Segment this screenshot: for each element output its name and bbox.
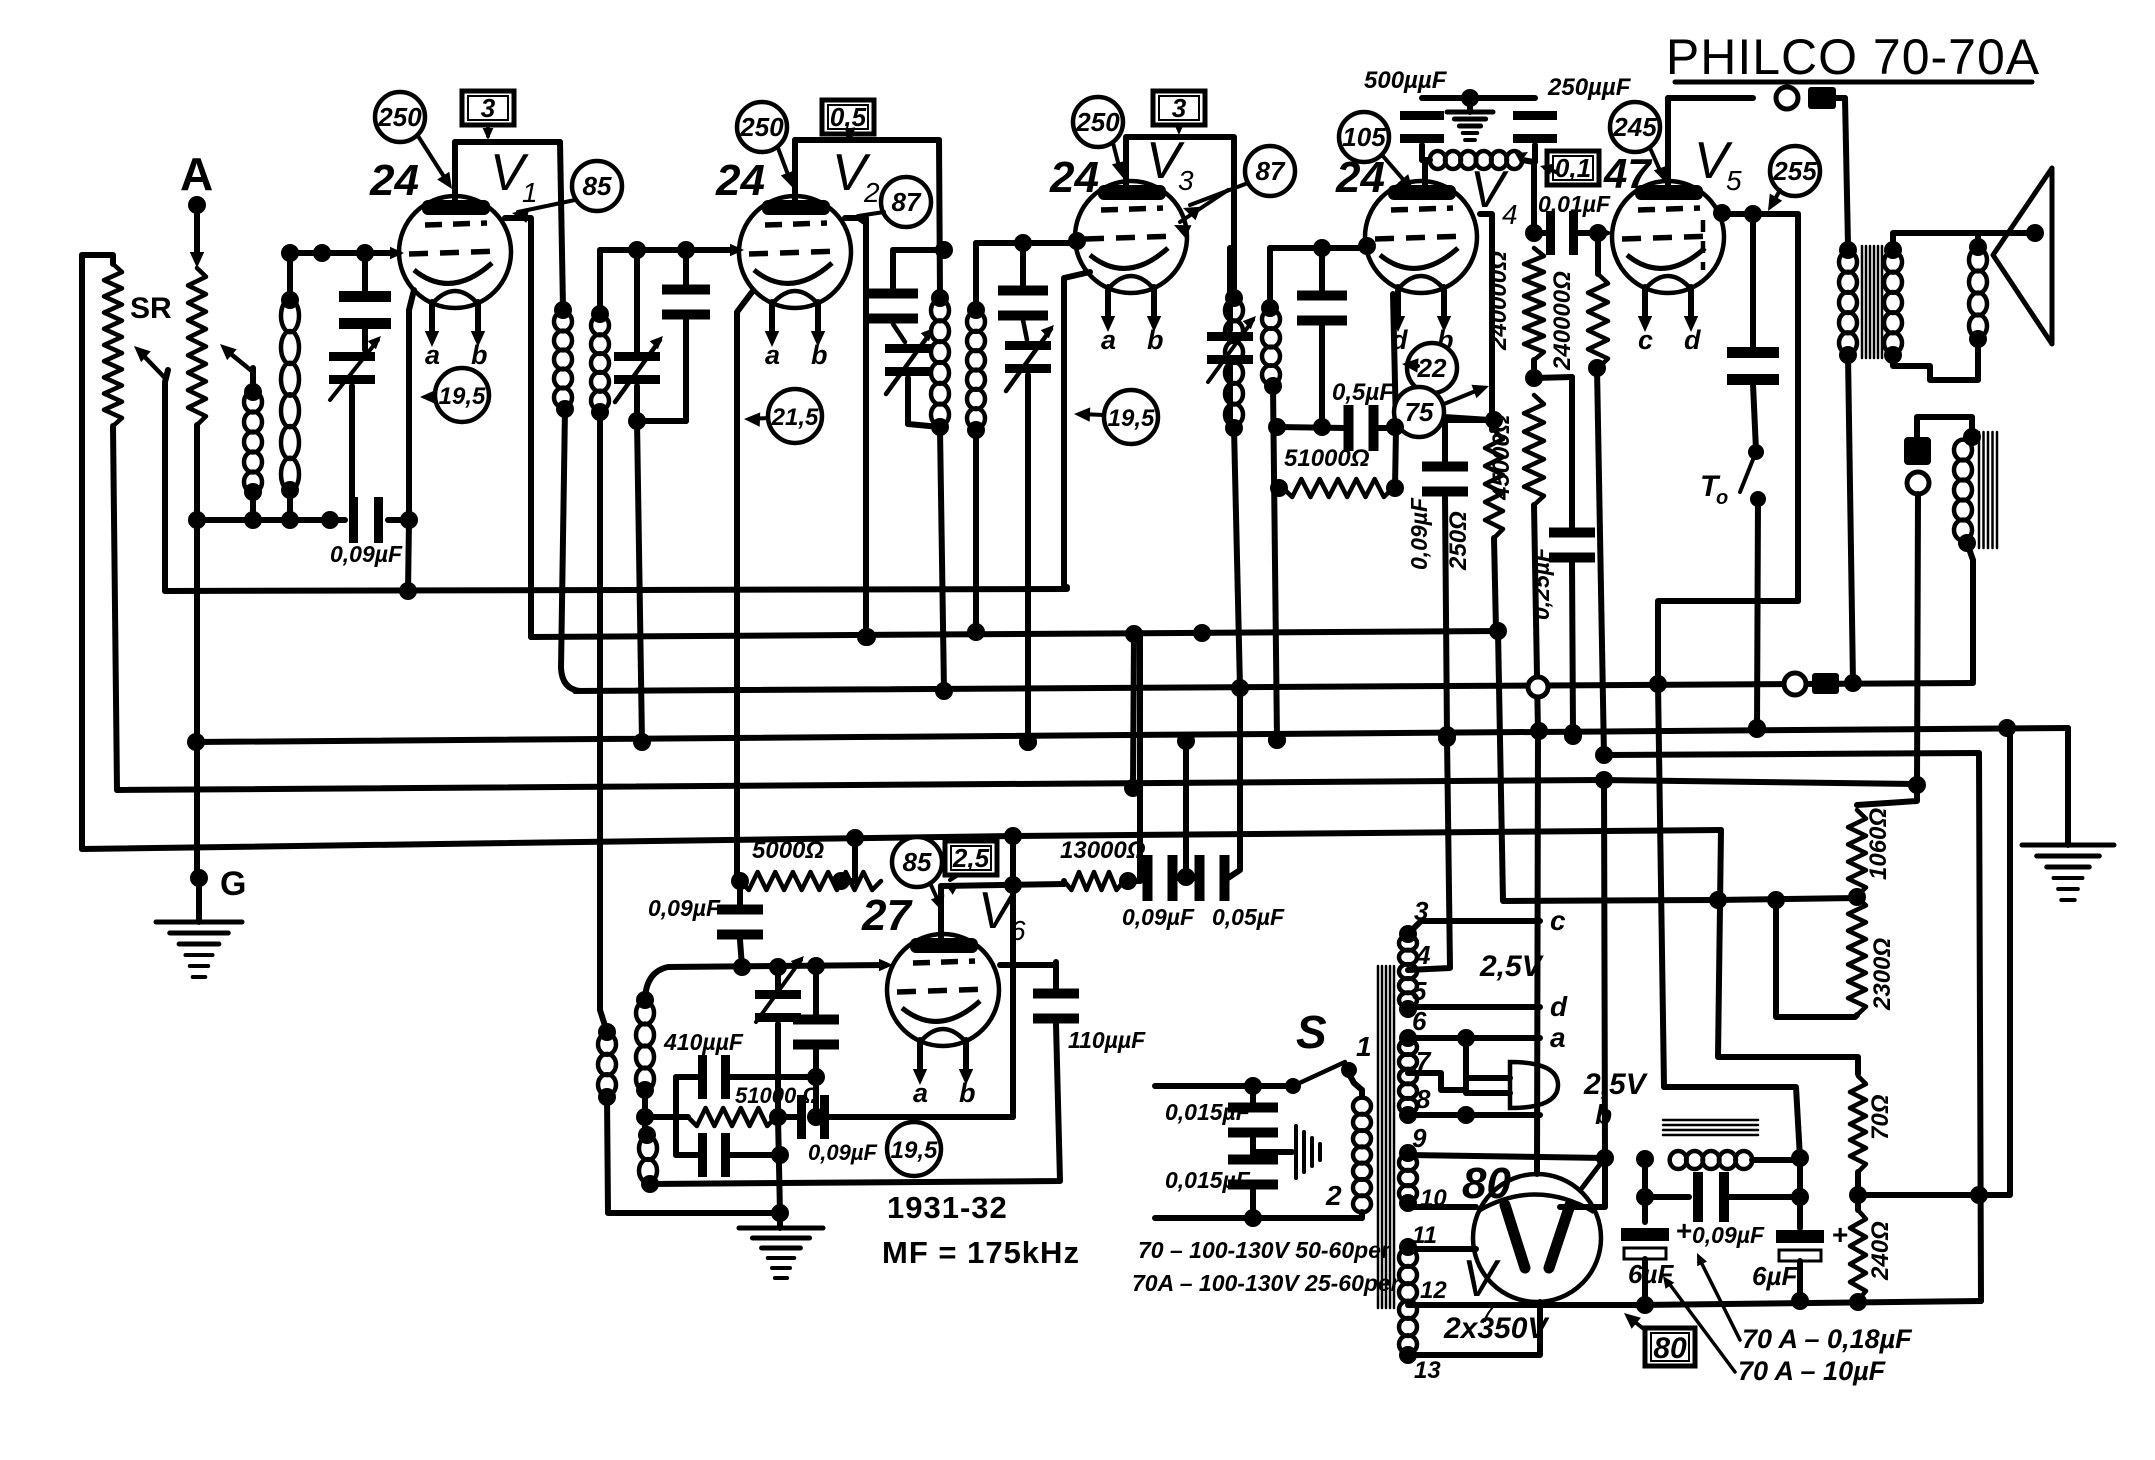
- label 240000 B: [1549, 271, 1576, 371]
- switch S: [1155, 1006, 1372, 1094]
- resistor 45000: [1524, 395, 1544, 505]
- capacitor IF2 left fixed: [868, 241, 953, 324]
- label 0,09 output: [1692, 1222, 1765, 1248]
- svg-text:240000Ω: 240000Ω: [1549, 271, 1576, 371]
- wire x1645 vertical: [1642, 1159, 1648, 1222]
- tube V3: [1075, 181, 1187, 293]
- wire V7 plate top: [1534, 1172, 1540, 1174]
- boxed 0,5 V2: [822, 100, 874, 140]
- svg-text:G: G: [220, 865, 246, 903]
- svg-text:24: 24: [369, 156, 419, 205]
- svg-text:240Ω: 240Ω: [1867, 1221, 1894, 1281]
- bus screen 788: [117, 771, 1917, 790]
- svg-text:0,015µF: 0,015µF: [1165, 1167, 1251, 1193]
- wire V5 plate top: [1665, 98, 1671, 190]
- svg-text:d: d: [1550, 991, 1568, 1022]
- wire V2 plate loop: [795, 137, 939, 143]
- wire V2cath joins 5000: [737, 879, 740, 881]
- heater V5 (c d): [1638, 287, 1701, 355]
- coil field upper: [1954, 440, 1976, 552]
- circled 85 V6: [892, 837, 944, 912]
- coil transformer primary: [1353, 1090, 1371, 1218]
- wire 110 top: [1053, 962, 1059, 965]
- svg-text:2: 2: [863, 177, 880, 208]
- svg-text:250: 250: [739, 112, 784, 142]
- wire IF1 sec bottom long: [600, 412, 607, 1032]
- label V1: [490, 144, 538, 208]
- svg-text:d: d: [1391, 325, 1408, 355]
- svg-text:5: 5: [1412, 976, 1427, 1006]
- svg-text:a: a: [913, 1078, 928, 1108]
- svg-text:2,5V: 2,5V: [1583, 1068, 1649, 1101]
- svg-text:70 A – 0,18µF: 70 A – 0,18µF: [1742, 1324, 1913, 1354]
- wire V4 grid feed: [1270, 237, 1376, 255]
- wire switch down: [1748, 499, 1766, 737]
- core field upper: [1979, 432, 1997, 548]
- coil secondary 6-8: [1399, 1029, 1417, 1124]
- coil IF1 secondary: [591, 305, 609, 421]
- wire V5 grid right: [1703, 204, 1798, 270]
- wire V2 grid right: [845, 218, 875, 646]
- wire capacitor branch: [1750, 214, 1756, 348]
- heater V6: [913, 1040, 976, 1108]
- bus bias 738: [187, 719, 2068, 751]
- terminal circle speaker: [1776, 87, 1798, 109]
- wire chainB mid: [1588, 359, 1606, 756]
- wire IF2 sec top: [973, 243, 979, 310]
- resistor 5000: [731, 872, 881, 890]
- capacitor osc low: [676, 1133, 789, 1177]
- coil secondary 3-5: [1399, 925, 1417, 1018]
- label 0,5MF: [1332, 379, 1395, 406]
- capacitor IF2 right fixed: [998, 243, 1048, 321]
- wire V6 right mesh: [1000, 962, 1056, 968]
- label t9: [1412, 1123, 1427, 1153]
- wire 51000 det right up: [1393, 294, 1396, 488]
- label 0,05 det: [1212, 904, 1285, 930]
- label 250MMF: [1547, 74, 1632, 101]
- wire V4 grid right: [1480, 214, 1492, 430]
- svg-text:3: 3: [1178, 165, 1194, 196]
- svg-text:7: 7: [1480, 1297, 1497, 1328]
- label 13000: [1060, 837, 1146, 864]
- svg-text:11: 11: [1412, 1222, 1437, 1249]
- svg-text:b: b: [1147, 325, 1164, 355]
- capacitor 0,09 under5000: [717, 881, 763, 967]
- wire c drop: [1177, 738, 1195, 886]
- wire 1134 drop: [1124, 634, 1142, 797]
- wire chainA bottom: [1530, 505, 1548, 740]
- svg-text:85: 85: [903, 847, 932, 877]
- svg-text:12: 12: [1420, 1277, 1447, 1304]
- resistor 70ohm: [1850, 1076, 1866, 1172]
- label 24 V4: [1335, 153, 1385, 202]
- wire 410 left leg: [673, 1077, 679, 1155]
- label 24 V2: [715, 156, 765, 205]
- svg-text:5: 5: [1726, 165, 1742, 196]
- svg-text:0,5µF: 0,5µF: [1332, 379, 1395, 406]
- coil IF3 primary: [1225, 289, 1249, 697]
- label 240ohm: [1867, 1221, 1894, 1281]
- svg-text:250: 250: [377, 102, 422, 132]
- svg-text:2300Ω: 2300Ω: [1869, 938, 1896, 1011]
- wire antenna lead: [190, 214, 204, 268]
- svg-text:240000Ω: 240000Ω: [1485, 251, 1512, 351]
- capacitor 0,5MF: [1277, 405, 1404, 451]
- capacitor 410MMF: [676, 1055, 825, 1099]
- boxed 2,5 V6: [945, 841, 997, 895]
- svg-text:0,09µF: 0,09µF: [808, 1140, 877, 1165]
- label 0,09 det: [1122, 904, 1195, 930]
- capacitor 250MMF: [1513, 111, 1557, 162]
- circled 19,5 V1: [420, 368, 489, 422]
- circled 85 V1: [512, 161, 622, 223]
- svg-text:19,5: 19,5: [439, 383, 486, 410]
- circled 87 V2: [852, 177, 931, 227]
- wire 70 bottom: [1849, 1172, 1867, 1204]
- label 6MF 1: [1628, 1259, 1674, 1289]
- svg-text:6: 6: [1412, 1006, 1427, 1036]
- label 70ohm: [1867, 1094, 1894, 1140]
- tube V6: [887, 934, 999, 1046]
- capacitor IF2 left trimmer: [885, 324, 940, 427]
- terminal square field: [1904, 437, 1931, 465]
- wire osc left bottom: [607, 1097, 780, 1213]
- svg-text:45000Ω: 45000Ω: [1488, 414, 1515, 501]
- svg-text:3: 3: [481, 93, 496, 123]
- label t13: [1414, 1357, 1441, 1384]
- wire IF3 sec top: [1267, 248, 1273, 308]
- wire 51000 right: [769, 1108, 787, 1126]
- wire primary bottom: [1848, 355, 1853, 683]
- wire corner down to bus591: [399, 520, 417, 600]
- svg-text:110µµF: 110µµF: [1068, 1027, 1146, 1053]
- svg-text:51000 Ω: 51000 Ω: [735, 1083, 819, 1108]
- wire V3 cathode drop: [1064, 272, 1090, 587]
- wire caps up: [1228, 689, 1240, 878]
- capacitor osc trimmer: [755, 956, 804, 1117]
- svg-text:80: 80: [1462, 1159, 1511, 1208]
- svg-text:2x350V: 2x350V: [1443, 1312, 1550, 1345]
- wire t8 b: [1408, 1099, 1612, 1130]
- wire V6 top cap: [938, 886, 944, 943]
- wire voice top: [1975, 233, 1981, 247]
- resistor 240ohm: [1850, 1195, 1866, 1300]
- wire IF3 sec bottom: [1268, 386, 1288, 749]
- svg-text:b: b: [811, 340, 828, 370]
- terminal circle field: [1907, 472, 1929, 494]
- svg-text:1060Ω: 1060Ω: [1865, 808, 1892, 880]
- wire det coil left to tube: [1422, 160, 1428, 190]
- wire t3 c: [1408, 905, 1566, 936]
- svg-text:b: b: [471, 340, 488, 370]
- switch To: [1700, 444, 1766, 509]
- wire V1 grid right: [505, 218, 531, 637]
- node G: [190, 865, 246, 903]
- tube V1: [399, 196, 511, 308]
- wire sec top stub: [287, 253, 293, 300]
- wire t9: [1408, 1149, 1654, 1168]
- wire t6 a: [1408, 1022, 1566, 1053]
- wire square to coil top: [1917, 417, 1981, 446]
- pilot lamp: [1466, 1062, 1558, 1108]
- label 0,09 under5000: [648, 895, 721, 921]
- wire ant coil bottom: [250, 492, 256, 520]
- electrolytic 6MF 2: [1776, 1158, 1848, 1310]
- heater V4 (d b): [1391, 287, 1454, 355]
- svg-text:d: d: [1684, 325, 1701, 355]
- label V4: [1470, 161, 1518, 230]
- boxed 3 V1: [462, 91, 514, 140]
- resistor 13000: [1064, 872, 1124, 890]
- svg-text:105: 105: [1342, 122, 1386, 152]
- label 2300: [1869, 938, 1896, 1011]
- wire secondary bottom: [1893, 339, 1978, 380]
- label 0,015 lower: [1165, 1167, 1251, 1193]
- core field lower: [1663, 1120, 1758, 1135]
- resistor SR volume control: [104, 264, 122, 426]
- svg-text:51000Ω: 51000Ω: [1284, 445, 1370, 472]
- label 24 V1: [369, 156, 419, 205]
- label V3: [1146, 132, 1194, 196]
- core transformer: [1378, 966, 1394, 1308]
- capacitor 500MMF: [1400, 111, 1444, 160]
- circled 19,5 V3: [1074, 390, 1158, 444]
- svg-text:0,09µF: 0,09µF: [330, 541, 403, 567]
- antenna terminal A: [180, 148, 213, 214]
- resistor 51000 det: [1283, 479, 1404, 497]
- svg-text:21,5: 21,5: [771, 404, 819, 431]
- svg-text:0,09µF: 0,09µF: [1122, 904, 1195, 930]
- wire between caps: [1176, 875, 1196, 881]
- resistor 51000 osc: [688, 1108, 776, 1126]
- svg-text:70A – 100-130V 25-60per: 70A – 100-130V 25-60per: [1132, 1270, 1401, 1296]
- wire IF1 sec top: [597, 250, 603, 314]
- svg-text:SR: SR: [130, 292, 172, 325]
- wire t13: [1408, 1302, 1540, 1355]
- wire V2 grid feed: [600, 244, 744, 257]
- capacitor tuning trimmer: [329, 336, 381, 520]
- wire switch to primary: [1349, 1074, 1362, 1090]
- svg-text:250Ω: 250Ω: [1445, 511, 1472, 571]
- capacitor 0,09MF antenna: [349, 497, 383, 543]
- svg-text:24: 24: [1049, 153, 1099, 202]
- wire x1718 vertical: [1718, 830, 1858, 1074]
- label 410MMF: [663, 1029, 744, 1055]
- capacitor IF3 trimmer: [1207, 248, 1256, 430]
- wire IF2 sec bottom: [967, 430, 985, 641]
- tube V2: [739, 196, 851, 308]
- circled 245: [1610, 102, 1667, 183]
- wire t7: [1408, 1038, 1466, 1090]
- wire bus738 ground drop: [2065, 728, 2071, 845]
- coil IF2 primary: [931, 289, 949, 436]
- svg-text:87: 87: [892, 187, 922, 217]
- svg-text:MF = 175kHz: MF = 175kHz: [882, 1235, 1080, 1270]
- label t12: [1420, 1277, 1447, 1304]
- bus cathode 591: [165, 589, 1067, 591]
- label V2: [832, 144, 880, 208]
- wire t5 d: [1408, 991, 1568, 1022]
- tube V7: [1473, 1174, 1601, 1302]
- label 24 V3: [1049, 153, 1099, 202]
- heater V3: [1101, 287, 1164, 355]
- svg-text:S: S: [1296, 1006, 1327, 1058]
- svg-text:0,5: 0,5: [830, 102, 867, 132]
- wire V1 top cap: [452, 142, 458, 205]
- svg-text:o: o: [1716, 487, 1728, 509]
- wire 255 vertical: [1658, 214, 1798, 684]
- label 0,01MF: [1538, 191, 1611, 217]
- wire chainA mid: [1525, 360, 1543, 387]
- svg-text:4: 4: [1502, 199, 1518, 230]
- label 80 V7: [1462, 1159, 1511, 1208]
- svg-text:255: 255: [1772, 156, 1817, 186]
- svg-text:75: 75: [1405, 397, 1434, 427]
- svg-text:1: 1: [522, 177, 538, 208]
- svg-text:24: 24: [715, 156, 765, 205]
- boxed 80: [1624, 1313, 1695, 1366]
- label 0,09MF antenna: [330, 541, 403, 567]
- label 2,5V lamp: [1583, 1068, 1649, 1101]
- wire 13000 avc: [1064, 634, 1140, 884]
- ground mini det: [1447, 98, 1493, 140]
- bus AVC 632: [531, 624, 1501, 646]
- svg-text:2: 2: [1325, 1180, 1342, 1211]
- svg-text:70 – 100-130V 50-60per: 70 – 100-130V 50-60per: [1138, 1237, 1391, 1263]
- svg-text:13: 13: [1414, 1357, 1441, 1384]
- svg-text:0,25µF: 0,25µF: [1528, 547, 1554, 620]
- svg-text:2,5: 2,5: [952, 843, 990, 873]
- label SR: [130, 292, 172, 325]
- wire V3 plate loop: [1126, 137, 1234, 298]
- label 0,09MF V4: [1406, 497, 1432, 570]
- svg-text:80: 80: [1653, 1332, 1687, 1365]
- title PHILCO 70-70A: [1666, 29, 2040, 85]
- heater V2: [765, 302, 828, 370]
- wire V5 plate rail: [1668, 95, 1753, 101]
- wire IF1 pri bottom: [561, 409, 580, 691]
- circled 22 V4: [1402, 343, 1457, 393]
- wire cap bottom joins: [349, 517, 355, 523]
- svg-text:27: 27: [861, 891, 913, 940]
- wire t10: [1408, 1204, 1476, 1210]
- tube V5: [1612, 181, 1724, 293]
- ground osc: [739, 1213, 823, 1278]
- ground right: [2022, 845, 2114, 900]
- svg-text:500µµF: 500µµF: [1364, 67, 1448, 94]
- coil secondary 11-13: [1399, 1238, 1417, 1364]
- capacitor IF1 fixed: [662, 241, 710, 421]
- coil IF3 secondary: [1261, 299, 1282, 395]
- capacitor IF3 fixed: [1297, 239, 1347, 436]
- label 1060: [1865, 808, 1892, 880]
- label 70A line2: [1132, 1270, 1401, 1296]
- wire tap to 51000: [645, 1114, 688, 1120]
- svg-text:b: b: [959, 1078, 976, 1108]
- wire osc grid top: [645, 957, 893, 1002]
- label 51000 osc: [735, 1083, 819, 1108]
- wire 5000 to bus: [841, 838, 855, 881]
- capacitor IF2 right trimmer: [1005, 320, 1054, 751]
- wire square to transformer: [1836, 98, 1848, 245]
- wire SR left drop: [79, 255, 85, 849]
- svg-text:4: 4: [1415, 940, 1431, 970]
- wire V2 cathode drop: [737, 292, 752, 879]
- wire bottom rail right: [1645, 1293, 1981, 1311]
- label 110MMF: [1068, 1027, 1146, 1053]
- label 250ohm: [1445, 511, 1472, 571]
- svg-text:87: 87: [1256, 156, 1286, 186]
- wire 240 bottom: [1855, 1300, 1861, 1302]
- coil det: [1422, 151, 1534, 169]
- wire SR tap: [134, 346, 168, 591]
- svg-text:+: +: [1832, 1219, 1848, 1250]
- resistor 240000 A: [1524, 248, 1544, 360]
- wire chainA top: [1525, 162, 1543, 242]
- capacitor 0,01MF coupling: [1534, 211, 1613, 255]
- wire cap to corner: [388, 511, 418, 529]
- label 70 line1: [1138, 1237, 1391, 1263]
- wire screen elbow: [1498, 631, 1714, 901]
- coil antenna secondary: [281, 291, 299, 499]
- label 6MF 2: [1752, 1261, 1798, 1291]
- capacitor V5 cathode: [1727, 347, 1779, 450]
- circled 19,5 osc: [887, 1122, 941, 1176]
- label 5000: [752, 837, 824, 864]
- wire t4: [1408, 738, 1450, 970]
- label 0,015 upper: [1165, 1099, 1251, 1125]
- svg-text:245: 245: [1612, 112, 1657, 142]
- label MF 175kHz: [882, 1235, 1080, 1270]
- wire osc B bottom: [0, 0, 1, 1]
- wire V1 plate loop: [455, 139, 560, 145]
- boxed 3 V3: [1153, 91, 1205, 135]
- label t5: [1412, 976, 1427, 1006]
- coil voice: [1969, 238, 1987, 348]
- terminal square speaker: [1808, 87, 1836, 109]
- wire 1979 down: [1970, 753, 1988, 1301]
- wire V2 top cap: [792, 140, 798, 205]
- label t4: [1415, 940, 1431, 970]
- wire field feed vertical: [1595, 746, 1613, 764]
- wire bus788 end drop: [1857, 776, 1926, 805]
- wire 110 bottom: [650, 1024, 1060, 1184]
- label V5: [1694, 132, 1742, 196]
- label V6: [978, 882, 1026, 946]
- wire 2300 bottom loop: [1767, 891, 1857, 1017]
- capacitor 0,015 lower: [1228, 1152, 1278, 1227]
- label 2,5V upper: [1479, 950, 1545, 983]
- circled 250 V3: [1073, 97, 1126, 178]
- wire ant tap: [220, 344, 253, 392]
- electrolytic 6MF 1: [1621, 1215, 1692, 1305]
- coil osc A: [636, 991, 654, 1099]
- svg-text:250µµF: 250µµF: [1547, 74, 1632, 101]
- capacitor 0,09 output: [1636, 1172, 1809, 1222]
- label 27: [861, 891, 913, 940]
- resistor 1060: [1848, 810, 1866, 906]
- label t7: [1416, 1046, 1432, 1076]
- wire osc left vertical: [0, 0, 1, 1]
- svg-text:1: 1: [1356, 1031, 1372, 1062]
- svg-text:85: 85: [583, 171, 612, 201]
- bus B+ 690: [575, 673, 1973, 697]
- label 0,25MF: [1528, 547, 1554, 620]
- label 70A 10: [1663, 1276, 1887, 1386]
- svg-text:c: c: [1550, 905, 1566, 936]
- wire osc tap: [636, 1090, 654, 1135]
